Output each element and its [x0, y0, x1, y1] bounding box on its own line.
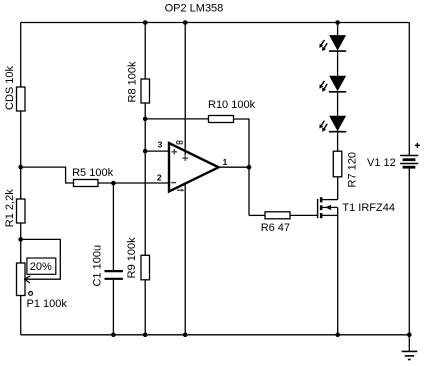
- wire top rail right corner down to battery: [408, 23, 410, 156]
- label op-amp infinity gain: [177, 141, 183, 144]
- resistor R6 47 body: [265, 212, 290, 219]
- svg-text:R8 100k: R8 100k: [127, 61, 139, 102]
- svg-text:3: 3: [158, 140, 163, 150]
- op-amp U1 triangle: [169, 143, 219, 192]
- transistor T1 drain stub: [322, 199, 337, 201]
- wire node D to R10: [145, 118, 208, 120]
- wire left column top (V+ to CDS): [20, 23, 22, 88]
- wire LED2 to LED3: [337, 92, 339, 116]
- wire C1 bottom to ground rail: [112, 279, 114, 335]
- svg-text:OP2 LM358: OP2 LM358: [165, 3, 224, 15]
- label battery plus: [415, 143, 420, 148]
- transistor T1 source stub: [322, 214, 337, 216]
- wire R9 bottom to ground rail: [144, 280, 146, 335]
- battery V1 12 plates: [400, 156, 418, 168]
- op-amp V+ pin plus mark: [182, 155, 188, 161]
- LED D2: [319, 76, 346, 92]
- resistor R9 100k body: [141, 255, 150, 279]
- node D junction (R8/R10): [143, 117, 148, 122]
- svg-text:T1 IRFZ44: T1 IRFZ44: [342, 202, 395, 214]
- capacitor C1 100u plates: [105, 270, 123, 272]
- svg-text:R6 47: R6 47: [261, 222, 290, 234]
- svg-text:R9 100k: R9 100k: [126, 237, 138, 278]
- ground symbol: [402, 335, 418, 360]
- svg-text:R5 100k: R5 100k: [72, 167, 113, 179]
- node F junction (output/R10/R6): [247, 165, 252, 170]
- svg-text:P1 100k: P1 100k: [27, 298, 68, 310]
- svg-text:20%: 20%: [30, 261, 52, 273]
- node junction T1 source/ground rail: [335, 333, 340, 338]
- svg-text:R1 2,2k: R1 2,2k: [4, 189, 16, 227]
- wire bottom ground rail: [21, 334, 410, 336]
- wire node E down to R9: [144, 151, 146, 255]
- wire P1 bottom to ground rail: [20, 296, 22, 335]
- resistor R8 100k body: [141, 79, 150, 103]
- resistor R10 100k body: [209, 116, 234, 123]
- wire LED1 to LED2: [337, 51, 339, 76]
- node junction top rail/LED chain: [335, 20, 340, 25]
- wire to R6: [249, 214, 265, 216]
- resistor R7 120 body: [333, 151, 342, 177]
- potentiometer P1 100k body: [17, 263, 26, 296]
- node junction R9/ground rail: [143, 333, 148, 338]
- photoresistor CDS 10k body: [17, 87, 26, 111]
- transistor T1 body diode arrow: [322, 205, 337, 210]
- node C junction (R5/C1/pin2): [111, 181, 116, 186]
- svg-text:C1 100u: C1 100u: [91, 245, 103, 287]
- resistor R1 2,2k body: [17, 199, 26, 223]
- wire op-amp pin 3: [145, 150, 169, 152]
- wire C1 top: [112, 183, 114, 271]
- node junction top rail/op-amp supply: [183, 20, 188, 25]
- op-amp minus input mark: [171, 182, 176, 184]
- wire T1 source down to ground rail: [337, 207, 339, 334]
- wire R5 to op-amp pin 2: [98, 182, 169, 184]
- resistor R5 100k body: [74, 180, 99, 187]
- wire output node down to R6: [248, 167, 250, 215]
- node junction top rail/R8: [143, 20, 148, 25]
- wire V+ to R8: [144, 23, 146, 80]
- wire R1 bottom to P1: [20, 223, 22, 263]
- svg-text:CDS 10k: CDS 10k: [4, 65, 16, 110]
- op-amp plus input mark: [172, 149, 178, 155]
- wire T1 drain up to R7: [337, 177, 339, 200]
- wire top rail to LED1: [337, 23, 339, 36]
- transistor T1 channel bars: [320, 197, 323, 218]
- wire node A to R5: [21, 167, 74, 183]
- wire top rail V+: [21, 22, 410, 24]
- svg-text:2: 2: [157, 172, 162, 182]
- wire R8 bottom to node D: [144, 103, 146, 151]
- node junction battery/ground rail: [407, 333, 412, 338]
- node E junction (pin3 tap/R9): [143, 149, 148, 154]
- wire op-amp V+ supply: [184, 23, 186, 156]
- transistor T1 gate bar: [317, 199, 319, 218]
- wire R6 to T1 gate: [290, 214, 318, 216]
- wire op-amp V- supply: [184, 184, 186, 335]
- svg-text:R7 120: R7 120: [347, 152, 359, 187]
- potentiometer P1 terminal circle: [29, 292, 33, 296]
- potentiometer P1 wiper wire: [21, 239, 61, 279]
- wire CDS bottom to node A: [20, 111, 22, 199]
- potentiometer P1 position box 20%: [27, 258, 56, 274]
- node B junction (R1/P1 wiper): [18, 237, 23, 242]
- op-amp output wire pin 1: [219, 166, 249, 168]
- wire R10 to output node: [234, 119, 250, 167]
- LED D1: [319, 35, 346, 51]
- LED D3: [319, 116, 346, 132]
- node junction C1/ground rail: [111, 333, 116, 338]
- potentiometer P1 wiper arrowhead: [24, 276, 30, 283]
- op-amp V- pin arrow mark: [177, 189, 185, 192]
- wire battery minus down to ground rail: [408, 168, 410, 335]
- svg-text:1: 1: [223, 157, 228, 167]
- wire R7 top to LED3: [337, 130, 339, 151]
- svg-text:V1 12: V1 12: [367, 157, 396, 169]
- node junction supply/ground rail: [183, 333, 188, 338]
- node A junction (CDS/R1/R5): [18, 165, 23, 170]
- svg-text:R10 100k: R10 100k: [208, 99, 256, 111]
